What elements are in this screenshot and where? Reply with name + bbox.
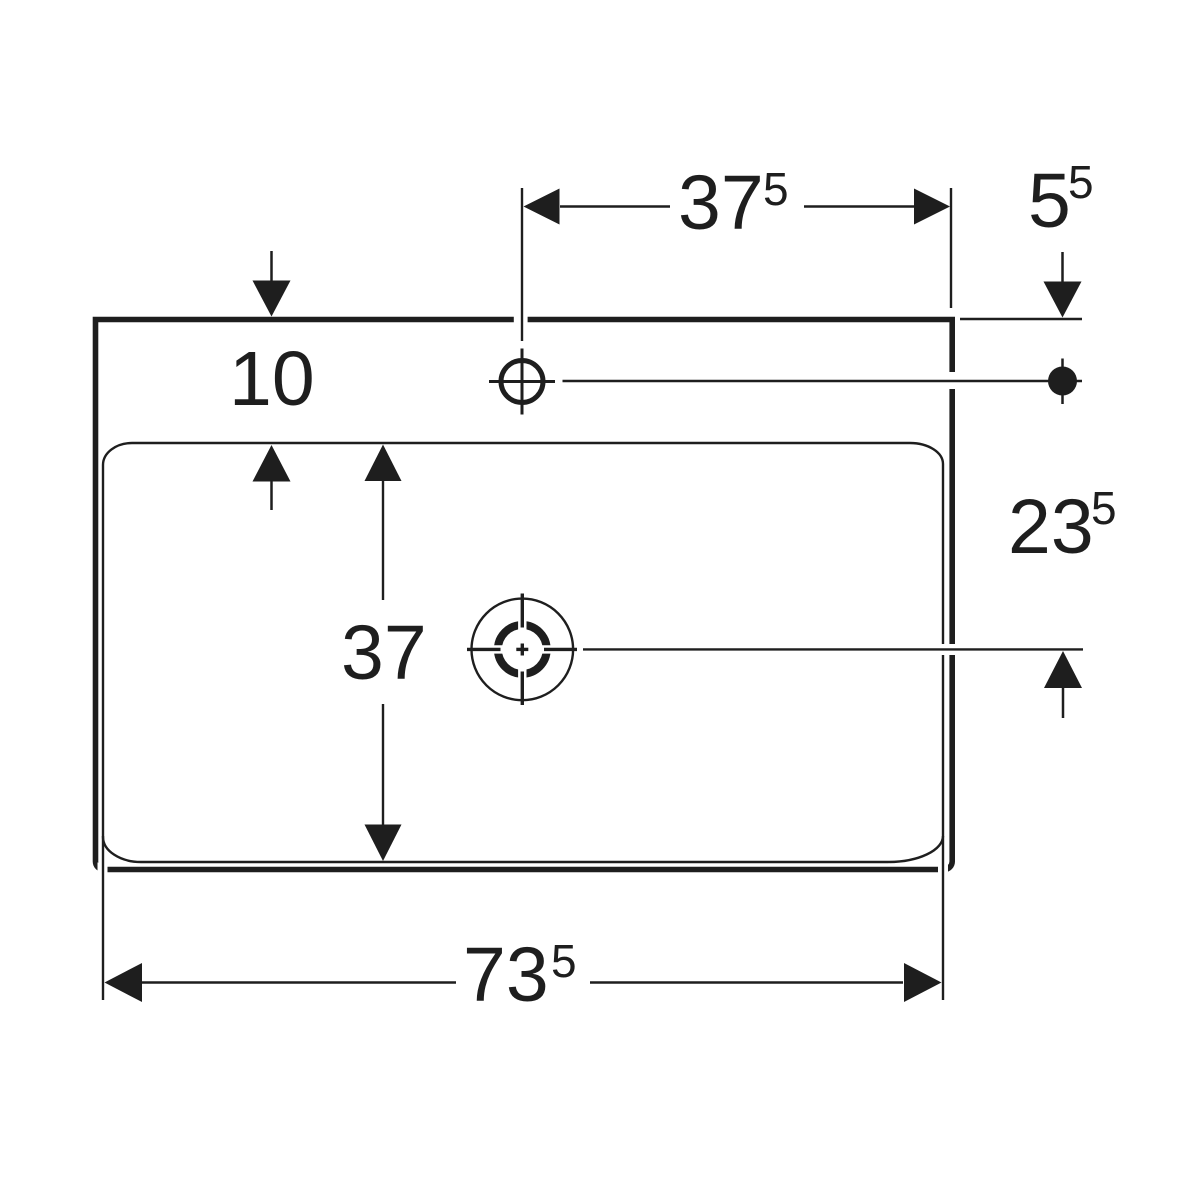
svg-text:5: 5 <box>763 163 789 215</box>
svg-text:5: 5 <box>1028 158 1071 244</box>
svg-text:10: 10 <box>229 336 315 422</box>
svg-text:37: 37 <box>678 160 764 246</box>
svg-text:23: 23 <box>1008 484 1094 570</box>
svg-text:5: 5 <box>1091 482 1117 534</box>
svg-text:5: 5 <box>1068 156 1094 208</box>
svg-text:73: 73 <box>463 932 549 1018</box>
svg-text:37: 37 <box>341 610 427 696</box>
svg-text:5: 5 <box>551 935 577 987</box>
